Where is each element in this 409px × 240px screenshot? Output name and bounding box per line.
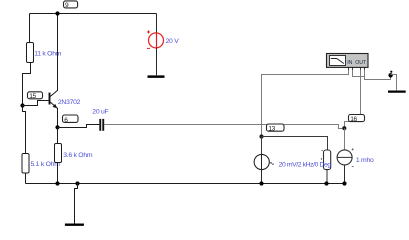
svg-text:OUT: OUT (355, 60, 367, 66)
wire G1 bottom to rail (344, 166, 346, 184)
junction R4 rail (324, 181, 328, 185)
wire plotter OUT- to ground blob (365, 67, 391, 79)
resistor R2 5.1 k Ohm (22, 154, 29, 174)
junction node 9 on top rail (55, 11, 59, 15)
node box 15 (28, 92, 43, 100)
ground bottom-left (65, 223, 84, 225)
wire top rail node 9 (30, 13, 157, 15)
wire left drop to R1 (29, 14, 31, 43)
svg-text:20 V: 20 V (166, 38, 180, 45)
wire node 13 capacitor to VCCS (104, 125, 342, 129)
ground battery V1 (148, 75, 165, 78)
wire plotter OUT+ to node 16 bend (345, 67, 361, 150)
wire bottom rail (26, 183, 345, 185)
battery V1 20 V (147, 30, 164, 48)
ground blob terminal (388, 71, 392, 78)
label V2 value 20 mV/2 kHz/0 Deg (270, 161, 331, 168)
svg-text:20 mV/2 kHz/0 Deg: 20 mV/2 kHz/0 Deg (279, 161, 332, 168)
svg-text:1 mho: 1 mho (356, 157, 374, 164)
transistor Q1 2N3702 (50, 14, 58, 128)
junction G1 rail corner (342, 181, 346, 185)
wire rail to ground (75, 184, 78, 224)
wire battery V1 bottom (156, 48, 158, 75)
resistor R3 3.6 k Ohm (55, 144, 62, 163)
wire node6 to capacitor (58, 125, 100, 128)
svg-text:3.6 k Ohm: 3.6 k Ohm (63, 152, 93, 159)
junction node 13/16 top of VCCS (342, 126, 346, 130)
junction emitter node 6 (55, 125, 59, 129)
svg-text:2N3702: 2N3702 (58, 99, 81, 106)
node box 13 (267, 124, 285, 133)
capacitor C1 20 uF (100, 119, 103, 131)
svg-text:13: 13 (268, 126, 275, 133)
wire battery V1 top (156, 14, 158, 34)
AC source V2 (254, 137, 269, 184)
node box 9 (64, 1, 78, 9)
node box 16 (349, 115, 365, 123)
wire node15 to R2 (23, 106, 26, 154)
VCCS G1 1 mho (337, 128, 354, 166)
plotter pin stubs (349, 67, 365, 69)
wire branch to sense resistor R4 (262, 137, 328, 151)
svg-text:15: 15 (29, 93, 36, 100)
wire R3 bottom to rail (57, 163, 59, 184)
node box 6 (63, 115, 79, 124)
ground right (388, 90, 406, 92)
wire R2 bottom to ground rail (25, 173, 27, 184)
wire R1 bottom jog to node 15 (23, 63, 31, 106)
junction source branch node 13 (259, 134, 263, 138)
svg-text:20 uF: 20 uF (92, 108, 108, 115)
resistor R1 11 k Ohm (27, 43, 34, 63)
svg-text:IN: IN (347, 60, 352, 66)
junction V2 rail (259, 181, 263, 185)
resistor R4 sense (321, 150, 330, 170)
wire R4 to rail (326, 170, 328, 184)
wire blob to right ground (391, 75, 397, 91)
wire emitter to R3 (57, 127, 59, 143)
svg-text:16: 16 (350, 116, 357, 123)
junction R3 rail (55, 181, 59, 185)
junction node 15 (20, 103, 24, 107)
wire plotter IN- (353, 67, 365, 76)
junction ground branch rail (75, 181, 79, 185)
bode plotter U1 (327, 54, 369, 68)
wire base lead from node 15 (23, 101, 49, 106)
wire plotter IN+ to node 13 net (262, 67, 349, 136)
